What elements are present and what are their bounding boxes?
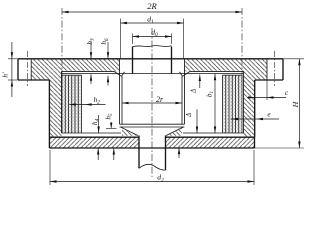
dimension 2r (122, 95, 182, 104)
clearance delta upper (190, 75, 201, 95)
dimension h2 with leader arrows (69, 95, 105, 106)
left wall outer edge (48, 80, 50, 137)
dimension d0 (133, 28, 172, 44)
dimension H overall height (255, 59, 305, 148)
top surface edge (18, 58, 283, 60)
left flange ear (18, 59, 49, 80)
die face line (120, 126, 185, 128)
die ring wedge hatch left (122, 129, 137, 136)
top plate bottom edge left (62, 70, 115, 72)
left spring stack cap (62, 74, 82, 76)
right wall inner edge (243, 71, 245, 133)
left ear screw centerline (26, 51, 28, 86)
right flange ear (255, 59, 283, 80)
dimension h3 top pair left (86, 38, 96, 84)
dimension 2R (62, 1, 242, 13)
dimension h6 top pair right (100, 38, 110, 85)
svg-text:H: H (291, 101, 300, 108)
dimension d2 (50, 150, 254, 185)
lower arrow below plate right of rod (178, 148, 180, 158)
main vertical centerline (151, 28, 153, 177)
right spring stack (disc springs) (223, 75, 243, 133)
left wall inner edge (61, 71, 63, 133)
right spring stack cap (223, 74, 243, 76)
upper die body (top plate, hatched section) (31, 59, 267, 137)
dimension b1 spring space height (205, 74, 216, 133)
die block bottom edge (120, 123, 185, 125)
bottom plate outline (49, 137, 254, 148)
lower ejector rod (139, 136, 166, 171)
left spring stack (disc springs) (62, 75, 82, 133)
cavity floor ledge right (183, 132, 244, 134)
clearance delta lower (186, 109, 198, 133)
die block left edge (121, 76, 123, 124)
dimension h5 (105, 113, 117, 160)
top plate bottom edge right (190, 70, 244, 72)
dimension h4 (91, 115, 101, 160)
bore wall left (119, 59, 121, 124)
right ear screw centerline (274, 51, 276, 86)
svg-text:Δ: Δ (190, 89, 197, 94)
dimension d1 (121, 14, 184, 58)
cavity floor ledge left (62, 132, 122, 134)
bore wall right (184, 59, 186, 124)
dimension c (247, 80, 289, 100)
right bolt centerline (2R extension) (241, 8, 243, 84)
right wall outer edge (254, 80, 256, 137)
die taper left (121, 127, 138, 136)
die taper right (166, 127, 183, 136)
die block right edge (181, 76, 183, 124)
die ring wedge hatch right (167, 129, 182, 136)
upper punch rod (133, 46, 172, 74)
svg-text:2r: 2r (156, 95, 164, 104)
bottom plate (hatched section) (49, 137, 254, 148)
svg-text:2R: 2R (147, 1, 157, 11)
dimension h-prime flange thickness (1, 42, 18, 97)
svg-text:Δ: Δ (186, 113, 193, 118)
floating cap plate line (62, 73, 244, 75)
svg-text:h': h' (1, 72, 10, 78)
dimension e (231, 110, 280, 121)
left bolt centerline (2R extension) (61, 8, 63, 84)
bore lip right (180, 71, 191, 76)
bore lip left (114, 71, 125, 76)
